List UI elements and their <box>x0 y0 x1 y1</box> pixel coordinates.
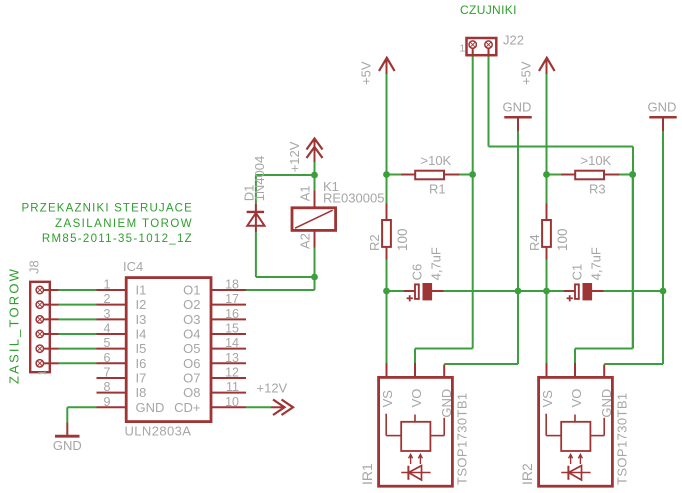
svg-text:I4: I4 <box>136 326 147 341</box>
svg-text:I1: I1 <box>136 283 147 298</box>
svg-text:RE030005: RE030005 <box>323 191 384 206</box>
svg-text:GND: GND <box>503 100 532 115</box>
svg-text:+12V: +12V <box>257 381 288 396</box>
svg-text:GND: GND <box>53 438 82 453</box>
svg-text:O3: O3 <box>183 312 200 327</box>
svg-text:17: 17 <box>225 292 239 306</box>
svg-text:3: 3 <box>104 307 111 321</box>
svg-text:1: 1 <box>460 43 466 55</box>
svg-text:GND: GND <box>648 100 677 115</box>
svg-text:TSOP1730TB1: TSOP1730TB1 <box>454 392 469 485</box>
svg-text:CD+: CD+ <box>174 400 200 415</box>
svg-text:12: 12 <box>225 365 239 379</box>
svg-text:VS: VS <box>380 390 395 408</box>
svg-text:J8: J8 <box>27 260 42 274</box>
svg-text:4,7uF: 4,7uF <box>428 247 443 280</box>
svg-text:VO: VO <box>409 389 424 408</box>
svg-text:GND: GND <box>599 389 614 418</box>
svg-text:I8: I8 <box>136 385 147 400</box>
svg-text:C1: C1 <box>570 264 585 281</box>
svg-text:1N4004: 1N4004 <box>252 156 267 202</box>
svg-text:8: 8 <box>104 380 111 394</box>
svg-text:ULN2803A: ULN2803A <box>125 424 192 439</box>
svg-text:100: 100 <box>395 228 410 251</box>
svg-text:GND: GND <box>136 400 165 415</box>
svg-text:I3: I3 <box>136 312 147 327</box>
svg-text:O6: O6 <box>183 356 200 371</box>
svg-text:C6: C6 <box>410 264 425 281</box>
svg-text:ZASIL_TOROW: ZASIL_TOROW <box>6 267 21 384</box>
svg-text:I7: I7 <box>136 370 147 385</box>
svg-text:+5V: +5V <box>519 61 534 85</box>
svg-text:IR2: IR2 <box>519 463 535 485</box>
svg-text:TSOP1730TB1: TSOP1730TB1 <box>614 392 629 485</box>
svg-text:O2: O2 <box>183 297 200 312</box>
svg-text:+12V: +12V <box>287 141 302 172</box>
svg-text:I6: I6 <box>136 356 147 371</box>
svg-text:A1: A1 <box>298 185 313 201</box>
svg-text:R3: R3 <box>589 181 606 196</box>
svg-text:R1: R1 <box>429 181 446 196</box>
svg-text:>10K: >10K <box>421 153 452 168</box>
svg-text:O4: O4 <box>183 326 200 341</box>
svg-text:2: 2 <box>104 292 111 306</box>
svg-text:+5V: +5V <box>359 61 374 85</box>
svg-text:18: 18 <box>225 278 239 292</box>
svg-text:4,7uF: 4,7uF <box>588 247 603 280</box>
svg-text:>10K: >10K <box>581 153 612 168</box>
svg-text:100: 100 <box>555 228 570 251</box>
svg-text:R2: R2 <box>367 234 382 251</box>
svg-text:PRZEKAZNIKI STERUJACE: PRZEKAZNIKI STERUJACE <box>21 202 193 214</box>
svg-text:VS: VS <box>540 390 555 408</box>
svg-text:R4: R4 <box>527 234 542 251</box>
svg-text:O8: O8 <box>183 385 200 400</box>
svg-text:O1: O1 <box>183 283 200 298</box>
svg-text:7: 7 <box>104 365 111 379</box>
svg-text:J22: J22 <box>503 32 524 47</box>
svg-text:9: 9 <box>104 395 111 409</box>
svg-text:O5: O5 <box>183 341 200 356</box>
svg-text:I5: I5 <box>136 341 147 356</box>
svg-text:CZUJNIKI: CZUJNIKI <box>460 3 517 17</box>
svg-text:IC4: IC4 <box>123 259 143 274</box>
svg-text:A2: A2 <box>298 233 313 249</box>
svg-text:RM85-2011-35-1012_1Z: RM85-2011-35-1012_1Z <box>42 233 193 245</box>
svg-text:I2: I2 <box>136 297 147 312</box>
svg-text:5: 5 <box>104 336 111 350</box>
svg-text:13: 13 <box>225 351 239 365</box>
svg-text:1: 1 <box>38 370 49 376</box>
svg-text:15: 15 <box>225 321 239 335</box>
svg-text:1: 1 <box>104 278 111 292</box>
svg-text:VO: VO <box>569 389 584 408</box>
svg-text:16: 16 <box>225 307 239 321</box>
svg-text:GND: GND <box>439 389 454 418</box>
svg-text:4: 4 <box>104 321 111 335</box>
svg-text:11: 11 <box>226 380 239 394</box>
svg-text:14: 14 <box>225 336 239 350</box>
svg-text:ZASILANIEM TOROW: ZASILANIEM TOROW <box>55 218 193 230</box>
svg-text:10: 10 <box>225 395 239 409</box>
svg-text:O7: O7 <box>183 370 200 385</box>
svg-text:6: 6 <box>104 351 111 365</box>
svg-text:IR1: IR1 <box>359 463 375 485</box>
